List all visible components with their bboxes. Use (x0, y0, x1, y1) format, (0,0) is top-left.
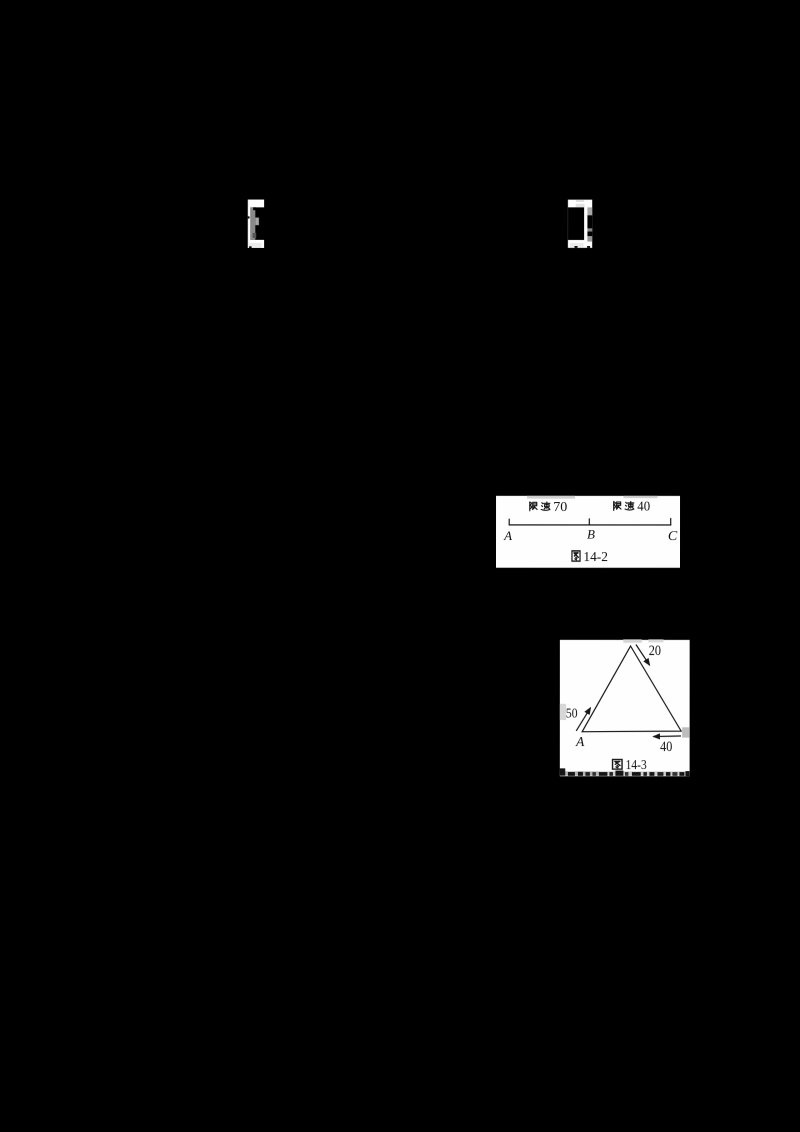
tick at C (670, 518, 672, 525)
arrow along bottom (leftward) (653, 735, 681, 738)
gray smudge left edge (560, 704, 566, 720)
gray smudge top edge left (527, 496, 575, 499)
svg-text:70: 70 (553, 500, 567, 515)
svg-text:A: A (575, 734, 585, 749)
svg-text:50: 50 (566, 707, 578, 722)
figure 14-3 white box (560, 640, 690, 776)
tick at B (588, 518, 590, 525)
caption 图 14-3 (613, 758, 647, 773)
left bracket fragment white patch (248, 200, 264, 249)
svg-text:14-2: 14-2 (583, 550, 608, 565)
caption 图 14-2 (572, 550, 608, 565)
arrow along left side (upward) (576, 708, 590, 731)
label 限速40 (614, 500, 650, 515)
gray smudge top right (648, 639, 663, 642)
svg-text:C: C (668, 529, 678, 544)
figure 14-2 white box (496, 496, 680, 568)
svg-text:B: B (587, 527, 595, 542)
label 限速70 (530, 500, 568, 515)
arrow along right side (downward) (636, 645, 650, 666)
right bracket fragment white patch (568, 200, 592, 248)
svg-text:A: A (503, 528, 512, 543)
svg-text:20: 20 (649, 643, 661, 659)
svg-text:14-3: 14-3 (626, 758, 647, 773)
svg-text:40: 40 (660, 739, 672, 755)
truncated text strip at box bottom (560, 768, 690, 776)
gray smudge top center (623, 639, 642, 642)
gray smudge right edge (682, 727, 690, 737)
triangle (582, 646, 681, 732)
svg-text:40: 40 (637, 500, 650, 515)
tick at A (508, 519, 510, 525)
segment line A to C (509, 524, 672, 526)
gray smudge top edge right (624, 496, 658, 498)
